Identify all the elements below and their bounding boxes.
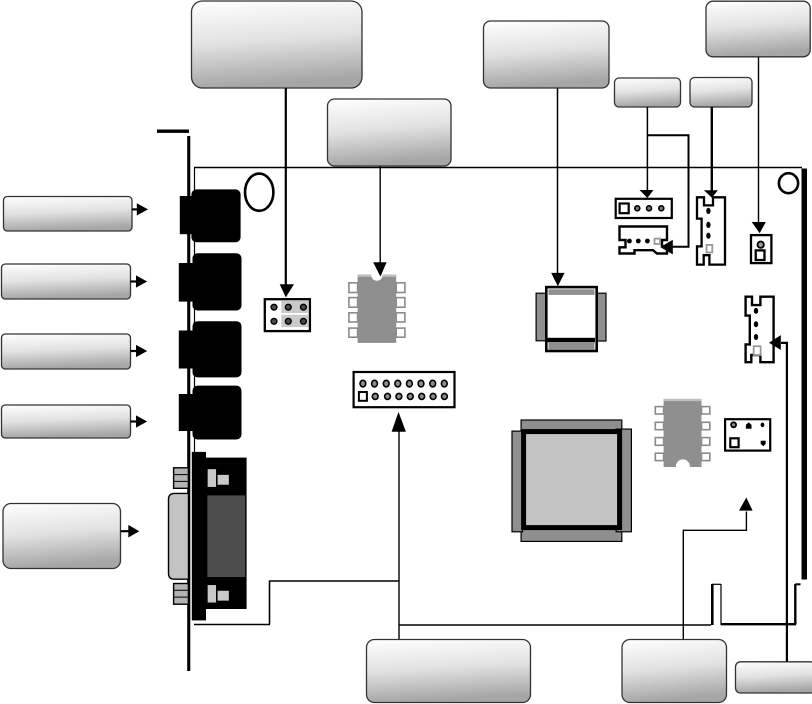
jumper JP1 cap row2 <box>281 315 308 327</box>
crystal Y1 bottom strip <box>549 342 595 349</box>
audio jack J2 <box>193 253 242 310</box>
header JP2 2x8 <box>354 372 455 407</box>
main chip U3 top strip <box>521 420 622 431</box>
callout box small 1 <box>615 78 681 107</box>
header JP2 top row pins <box>360 380 447 387</box>
card finger right step <box>794 584 796 625</box>
main chip U3 left strip <box>512 431 523 532</box>
header CN2 pin1 square <box>620 204 629 214</box>
audio jack J3 <box>193 321 242 377</box>
arrow to game port <box>121 525 139 538</box>
game port screw bottom <box>207 584 230 603</box>
PCB bottom edge left segment <box>194 624 270 626</box>
wire arrow to CN3 <box>704 107 718 198</box>
wire arrow to S2 <box>752 57 766 233</box>
pad S1 pentagon down <box>761 441 766 447</box>
PCB left edge <box>194 168 196 459</box>
main chip U3 body <box>524 432 620 528</box>
IC U2 notch <box>676 459 690 473</box>
arrow to J3 <box>131 345 148 357</box>
component S2 2-pin <box>751 235 771 263</box>
IC U1 body <box>358 275 397 343</box>
header JP2 bottom row pins <box>372 393 447 399</box>
bracket top tab <box>157 130 189 133</box>
pad S1 ring pin <box>731 422 736 427</box>
CD-in connector CN1 <box>620 227 668 254</box>
callout box left 1 <box>4 197 133 232</box>
card edge key notch top <box>712 583 721 585</box>
arrow to J2 <box>131 275 148 287</box>
arrow to J4 <box>131 415 148 427</box>
wire arrow to U1 <box>373 166 386 277</box>
mounting hole right <box>779 173 798 193</box>
card edge key notch left <box>711 584 714 625</box>
game port hex nut bottom <box>174 584 189 605</box>
wire branch to CD-in CN1 <box>648 135 689 254</box>
card edge key notch right <box>720 584 722 625</box>
header CN2 pins <box>635 206 664 211</box>
callout box left 3 <box>2 334 131 369</box>
callout box top-left <box>192 1 363 88</box>
PCB top edge <box>194 167 802 169</box>
audio jack J1 tab <box>180 196 192 234</box>
IC U2 body <box>664 399 702 467</box>
game port body inset <box>207 495 245 577</box>
crystal Y1 body <box>546 287 596 351</box>
card finger bottom edge thick <box>721 623 796 625</box>
vertical header CN4 <box>746 297 774 363</box>
audio jack J4 <box>193 386 242 440</box>
audio jack J4 tab <box>179 394 193 431</box>
wire arrow to JP1 <box>280 88 294 297</box>
mounting hole left <box>245 174 273 211</box>
PCB bottom edge mid segment <box>270 580 400 582</box>
pad S1 oval pin <box>761 423 765 428</box>
wire arrow to S1 <box>683 498 752 640</box>
card finger right hook <box>795 583 800 585</box>
jumper JP1 cap row1 <box>281 301 308 313</box>
pad S1 square pin <box>730 438 738 447</box>
jumper JP1 block <box>265 299 310 331</box>
pad component S1 <box>725 419 770 450</box>
jumper JP1 pins <box>271 304 306 324</box>
wire arrow to JP2 <box>392 412 406 639</box>
callout box mid-left <box>328 99 452 166</box>
header CN2 4-pin <box>616 199 672 218</box>
game port bracket plate <box>192 452 206 621</box>
IC U1 notch <box>371 270 382 281</box>
CN4 pins <box>754 308 758 340</box>
game port hex nut top <box>174 468 189 489</box>
callout box left 2 <box>2 264 131 299</box>
main chip U3 bottom strip <box>521 528 622 541</box>
wire arrow to Y1 <box>551 88 564 286</box>
game port screw top <box>207 468 230 487</box>
callout box bottom 3 <box>736 662 812 693</box>
CN3 pins <box>706 208 710 239</box>
wire arrow to CN2 <box>640 107 654 198</box>
audio jack J2 tab <box>179 263 193 302</box>
PCB right edge bar <box>802 169 808 580</box>
vertical header CN3 <box>697 197 725 264</box>
callout box top-right <box>706 1 810 57</box>
bracket <box>187 136 190 671</box>
game port body <box>206 458 247 609</box>
callout box left 4 <box>2 405 131 438</box>
main chip U3 right strip <box>616 429 631 532</box>
wire arrow to CN4 <box>769 335 787 661</box>
crystal Y1 left strip <box>536 293 546 341</box>
audio jack J3 tab <box>179 331 193 369</box>
game port D-shell <box>169 493 189 579</box>
CD-in CN1 pins <box>627 239 650 244</box>
crystal Y1 right strip <box>597 293 606 341</box>
PCB bottom edge under card fingers <box>399 624 711 626</box>
audio jack J1 <box>191 189 240 242</box>
IC U2 pins <box>655 407 710 461</box>
callout box left 5 <box>3 504 121 569</box>
crystal Y1 bottom bar <box>548 338 596 342</box>
callout box bottom 1 <box>367 640 531 703</box>
PCB bottom step <box>269 581 271 625</box>
arrow to J1 <box>132 203 148 215</box>
crystal Y1 top strip <box>549 289 595 295</box>
callout box small 2 <box>690 78 752 108</box>
IC U1 pins <box>349 283 405 337</box>
callout box bottom 2 <box>622 640 727 703</box>
pad S1 pentagon up <box>746 422 752 428</box>
header JP2 pin1 square <box>359 392 367 401</box>
callout box mid <box>484 21 610 88</box>
